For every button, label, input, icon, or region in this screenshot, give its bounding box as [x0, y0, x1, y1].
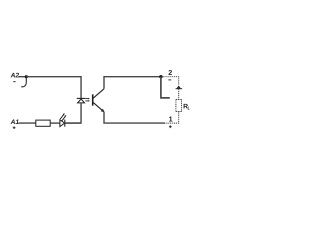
opto LED D1: [77, 98, 86, 103]
node A2 junction: [25, 75, 28, 78]
optocoupler light arrows: [85, 98, 90, 102]
wire LED to opto corner: [65, 122, 81, 124]
wire resistor to LED: [50, 122, 60, 124]
terminal A2 clamp hook: [21, 77, 26, 87]
LED indicator: [60, 113, 67, 127]
svg-text:A2: A2: [10, 72, 20, 79]
dashed wire R1 to terminal 1: [166, 112, 179, 124]
terminal 2 contact stub: [161, 77, 170, 98]
terminal A2 label: [10, 72, 20, 81]
wire A1 lead: [19, 122, 36, 124]
wire emitter to bottom output rail: [104, 112, 165, 123]
status diode D2: [176, 86, 183, 89]
terminal 2 label: [168, 68, 172, 80]
terminal 1 label: [169, 115, 173, 129]
terminal A1 label: [10, 119, 20, 129]
svg-text:2: 2: [168, 68, 172, 77]
dashed wire from node 2: [163, 77, 179, 86]
wire A2 lead: [18, 76, 26, 78]
svg-text:1: 1: [187, 106, 190, 111]
node terminal-2 junction: [159, 75, 162, 78]
svg-text:1: 1: [169, 115, 173, 124]
wire opto LED bottom lead: [65, 103, 81, 123]
resistor (input series): [36, 120, 50, 126]
wire collector to top output rail: [104, 77, 161, 89]
svg-text:A1: A1: [10, 119, 20, 126]
phototransistor Q1: [93, 89, 105, 112]
wire top input rail: [26, 77, 81, 98]
resistor R1: [176, 100, 190, 112]
dashed wire diode to R1: [178, 89, 180, 99]
